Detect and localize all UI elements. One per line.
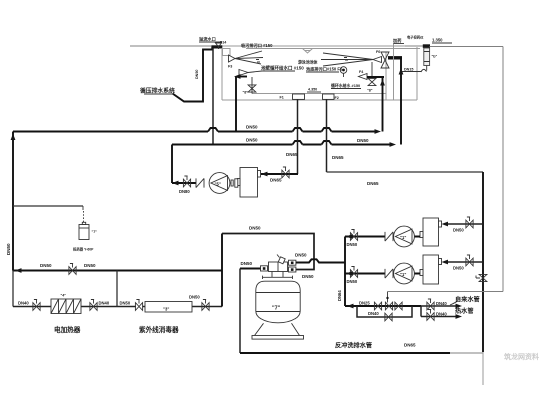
wire left inlet feed	[238, 76, 247, 78]
svg-text:DN50: DN50	[84, 263, 96, 268]
wire P1 discharge	[172, 182, 196, 184]
svg-text:DN50: DN50	[40, 263, 52, 268]
node hop A3	[322, 128, 332, 132]
component electric heater 4	[51, 294, 81, 314]
node arrow A right	[375, 129, 382, 134]
valve M2 with tap stem	[385, 292, 392, 310]
wire tap water thin line	[388, 291, 504, 293]
wire pump row1	[345, 236, 420, 238]
label 加药	[392, 37, 404, 100]
svg-text:"4": "4"	[61, 294, 67, 298]
svg-text:DN50: DN50	[295, 253, 307, 258]
node arrow outlet1	[456, 304, 463, 309]
label 自来水管	[450, 296, 480, 306]
svg-text:吸污排污口 #150: 吸污排污口 #150	[241, 42, 273, 49]
wire dosing line to frame	[430, 46, 503, 48]
node arrow manifold left	[347, 304, 354, 309]
component UV sterilizer 3	[145, 302, 192, 313]
svg-text:电子投药仪: 电子投药仪	[407, 35, 424, 40]
wire feed R2	[444, 261, 483, 263]
svg-text:循压排水系统: 循压排水系统	[140, 87, 175, 95]
svg-text:DN65: DN65	[332, 155, 344, 160]
svg-text:"7": "7"	[92, 230, 98, 234]
wire overflow drain pipe	[173, 50, 214, 102]
node hop B2	[322, 141, 332, 145]
label 1.350	[432, 38, 452, 44]
node hop A2	[293, 128, 303, 132]
wire main right downcomer DN65	[482, 172, 484, 352]
valve feed R1 DN50	[453, 217, 473, 233]
wire downcomer faint tail	[482, 352, 484, 385]
component strainer R1	[420, 218, 442, 246]
svg-text:DN40: DN40	[18, 301, 29, 306]
node tank legs	[255, 323, 300, 335]
svg-text:DN50: DN50	[357, 138, 369, 143]
wire feed R1	[444, 223, 483, 225]
valve 8 left	[243, 77, 256, 95]
node arrow feed R1	[442, 222, 449, 227]
node overflow weir bar	[211, 45, 222, 48]
wire water surface line left	[130, 45, 211, 47]
node skimmer box F2	[323, 94, 339, 100]
svg-text:DN50: DN50	[6, 243, 11, 255]
svg-text:DN50: DN50	[302, 274, 314, 279]
pump unit P1 suction riser	[297, 100, 299, 175]
svg-text:DN40: DN40	[99, 301, 110, 306]
node tank base	[252, 336, 304, 340]
node arrow into strainer1	[261, 172, 268, 177]
node doser top block	[423, 44, 430, 48]
svg-text:F3: F3	[228, 65, 232, 69]
svg-text:DN80: DN80	[179, 189, 190, 194]
wire backwash drain line	[240, 352, 450, 354]
component strainer R2	[420, 255, 442, 284]
pool inner floor	[252, 93, 386, 95]
wire filter waste left	[240, 268, 261, 270]
pump P1	[209, 173, 231, 194]
node arrow left riser up	[11, 134, 16, 141]
svg-text:DN50: DN50	[246, 138, 258, 143]
wire right riser A	[382, 77, 384, 132]
svg-text:"1": "1"	[400, 235, 406, 240]
svg-text:DN50: DN50	[120, 301, 131, 306]
check valve R2	[385, 269, 393, 278]
label 溢流水口 F14	[199, 36, 227, 45]
node arrow return left	[15, 268, 22, 273]
label 池底排污口 F5	[306, 66, 343, 73]
valve on downcomer	[476, 274, 487, 281]
svg-text:DN65: DN65	[404, 343, 416, 348]
wire backwash manifold	[345, 305, 421, 307]
svg-text:F6: F6	[376, 50, 380, 54]
wire pump row2	[345, 273, 420, 275]
valve P1 discharge	[179, 176, 191, 194]
valve heater out DN40	[90, 300, 110, 311]
label 循环水给水	[330, 83, 361, 89]
wire doser drop	[402, 66, 427, 73]
svg-text:DN50: DN50	[347, 242, 358, 247]
pump R1	[394, 226, 415, 247]
svg-text:1.350: 1.350	[432, 38, 443, 43]
node fan nozzle right	[321, 50, 382, 66]
node wall inlet F4	[359, 62, 376, 93]
valve UV out DN50	[189, 295, 209, 311]
wire outlet 2	[421, 316, 458, 318]
node hop B1	[293, 141, 303, 145]
wire heater bypass right	[116, 271, 118, 307]
svg-text:自来水管: 自来水管	[455, 296, 480, 304]
wire water surface line across pool	[222, 45, 424, 47]
node skimmer box F1	[280, 94, 305, 100]
valve feed R2 DN50	[453, 255, 473, 271]
svg-text:"7": "7"	[272, 306, 281, 312]
component sand filter tank 7	[256, 281, 300, 323]
svg-text:筑龙网资料: 筑龙网资料	[504, 352, 539, 361]
wire UV row	[143, 306, 223, 308]
svg-text:DN50: DN50	[189, 295, 200, 300]
svg-text:电加热器: 电加热器	[54, 325, 81, 334]
svg-text:"3": "3"	[163, 307, 169, 312]
node wall inlet nozzle left	[239, 70, 262, 76]
svg-text:DN65: DN65	[270, 178, 282, 183]
node arrow row1 out	[346, 234, 353, 239]
pool outer floor	[222, 99, 417, 101]
wire heater return line	[13, 270, 222, 272]
wire supply line B DN50	[172, 144, 390, 146]
svg-text:池底排污口#150 F5: 池底排污口#150 F5	[306, 66, 343, 73]
wire heater bypass line	[13, 306, 136, 308]
wire P1 riser to B	[171, 145, 173, 184]
svg-text:DN50: DN50	[453, 228, 464, 233]
wire pool deck line	[246, 48, 420, 50]
node dosing cylinder b	[424, 48, 438, 66]
wire filter feed top	[222, 234, 314, 270]
pool left wall	[221, 48, 223, 100]
node tank top flange	[263, 272, 293, 280]
node arrow feed R2	[442, 260, 449, 265]
valve heater in DN40	[18, 300, 40, 311]
svg-text:DN50: DN50	[249, 226, 261, 231]
wire manifold bypass	[357, 306, 412, 317]
svg-text:DN50: DN50	[195, 70, 199, 79]
node hop A1	[208, 128, 218, 132]
svg-text:DN65: DN65	[286, 152, 298, 157]
node arrow B right	[390, 142, 397, 147]
wire collector vertical	[221, 234, 223, 307]
valve bypass DN40	[368, 311, 392, 321]
svg-text:4.350: 4.350	[308, 88, 317, 92]
check valve R1	[385, 232, 393, 241]
wire backwash downpipe	[239, 269, 241, 354]
node arrow P1 out	[172, 181, 179, 186]
node gutter box	[223, 49, 231, 56]
svg-text:紫外线消毒器: 紫外线消毒器	[139, 325, 179, 334]
svg-text:DN25: DN25	[359, 301, 370, 306]
wire left main riser DN50	[12, 132, 14, 271]
wire drain header DN65	[327, 171, 484, 173]
wire outlet 1	[421, 305, 458, 307]
svg-text:DN50: DN50	[347, 279, 358, 284]
valve P1 suction DN65	[282, 167, 289, 178]
svg-text:加药: 加药	[392, 37, 402, 44]
wire right riser B	[400, 58, 402, 145]
node arrow outlet2	[456, 314, 463, 319]
label 电子水处理仪	[405, 35, 424, 47]
valve row1 DN50	[347, 230, 358, 248]
wire right frame vertical	[502, 47, 504, 292]
svg-text:DN64: DN64	[337, 290, 342, 301]
svg-text:DN40: DN40	[368, 311, 379, 316]
svg-text:池壁循环给水口 #150: 池壁循环给水口 #150	[261, 65, 304, 72]
valve M1	[374, 302, 381, 310]
valve return DN50	[69, 264, 76, 275]
wire eductor elbow	[388, 56, 402, 59]
node filter port right top	[289, 260, 296, 265]
svg-text:循环水给水 #150: 循环水给水 #150	[330, 83, 360, 88]
node coupling P1	[231, 179, 238, 187]
svg-text:DN50: DN50	[453, 266, 464, 271]
svg-text:溢流水口: 溢流水口	[199, 36, 216, 43]
pool right wall	[385, 52, 387, 100]
svg-text:"1": "1"	[400, 272, 406, 277]
node arrow left inlet	[234, 74, 241, 79]
svg-text:DN50: DN50	[246, 125, 258, 130]
svg-text:"8": "8"	[243, 91, 249, 95]
label 池壁给水口	[261, 65, 304, 72]
svg-text:F2: F2	[335, 96, 339, 100]
svg-text:F1: F1	[280, 96, 284, 100]
wire F2 drain riser	[326, 100, 328, 173]
pump R2	[394, 263, 415, 284]
svg-text:"8": "8"	[367, 89, 373, 93]
wire drain thin extension	[450, 352, 483, 354]
valve M3	[395, 302, 402, 310]
node filter port right bottom	[289, 267, 296, 272]
wire filter inlet right	[296, 259, 345, 262]
svg-text:DN65: DN65	[367, 181, 379, 186]
svg-text:F4: F4	[359, 70, 364, 74]
pool right surround	[416, 47, 418, 100]
node filter port left	[261, 266, 268, 271]
node arrow row2 out	[346, 271, 353, 276]
component multiport valve body	[269, 255, 288, 272]
node main drain F5	[340, 67, 347, 77]
wire outlet branch vertical	[420, 306, 422, 317]
node ejector nozzle F3	[228, 51, 263, 69]
svg-text:热水管: 热水管	[455, 307, 474, 315]
valve row2 DN50	[347, 267, 358, 285]
wire supply line A DN50	[13, 131, 376, 133]
wire P1 suction	[261, 173, 298, 175]
svg-text:"5": "5"	[215, 182, 221, 187]
node eductor wall fitting	[381, 52, 389, 68]
check valve P1	[196, 178, 204, 187]
wire left riser	[235, 77, 237, 132]
node floor drain funnel	[216, 43, 222, 49]
svg-text:DN40: DN40	[436, 301, 447, 306]
wire heater bypass left	[12, 271, 14, 307]
svg-text:DN50: DN50	[241, 261, 253, 266]
svg-text:反冲洗排水管: 反冲洗排水管	[335, 342, 372, 350]
valve UV in DN50	[120, 300, 143, 311]
svg-text:DN40: DN40	[436, 312, 447, 317]
valve outlet1 DN40	[427, 299, 447, 310]
svg-text:游泳池池体: 游泳池池体	[298, 60, 318, 65]
wire F4 feed	[367, 76, 384, 78]
svg-text:"b": "b"	[432, 55, 438, 59]
component chemical doser 7	[73, 222, 97, 251]
svg-text:DN15: DN15	[404, 68, 413, 72]
svg-text:投药器 Y-60P: 投药器 Y-60P	[73, 247, 94, 252]
label 4.350	[307, 88, 321, 93]
component strainer S1	[237, 168, 260, 198]
node arrow riser B up	[399, 68, 404, 75]
node water level mark	[303, 49, 313, 54]
label 循压排水系统	[140, 87, 175, 95]
valve outlet2 DN40	[427, 310, 447, 321]
wire chem feeder line	[13, 206, 84, 223]
wire pump manifold vertical	[344, 237, 346, 307]
wire balance pipe down	[212, 49, 214, 145]
